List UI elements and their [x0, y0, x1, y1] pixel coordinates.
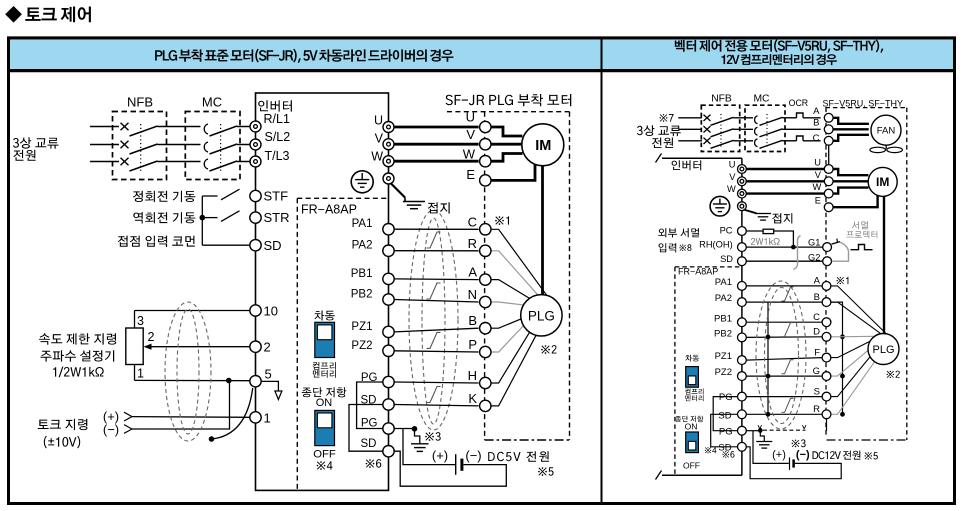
svg-text:SD: SD — [718, 443, 731, 454]
svg-text:G1: G1 — [808, 237, 820, 247]
svg-text:STR: STR — [264, 210, 290, 225]
svg-text:FR−A8AP: FR−A8AP — [678, 267, 718, 277]
svg-text:(−): (−) — [796, 449, 810, 461]
svg-text:N: N — [468, 287, 477, 302]
svg-text:P: P — [468, 337, 477, 352]
svg-text:U: U — [814, 158, 821, 168]
svg-text:PLG: PLG — [528, 308, 555, 323]
svg-text:U: U — [374, 114, 383, 128]
svg-text:B: B — [814, 292, 820, 303]
svg-text:U: U — [466, 110, 475, 125]
svg-text:3: 3 — [137, 314, 144, 328]
svg-text:R: R — [468, 236, 477, 251]
svg-text:E: E — [466, 167, 475, 182]
svg-text:PA1: PA1 — [352, 218, 373, 230]
svg-text:SD: SD — [361, 438, 377, 450]
svg-text:U: U — [729, 160, 736, 170]
svg-text:ON: ON — [685, 422, 698, 432]
svg-text:W: W — [727, 184, 736, 194]
svg-text:FR−A8AP: FR−A8AP — [301, 203, 357, 217]
svg-text:PA1: PA1 — [715, 277, 732, 288]
svg-text:A: A — [468, 265, 477, 280]
svg-text:SD: SD — [264, 238, 282, 253]
svg-text:C: C — [468, 214, 477, 229]
svg-text:PZ2: PZ2 — [715, 367, 732, 378]
svg-text:MC: MC — [753, 93, 770, 104]
svg-text:PG: PG — [719, 392, 733, 403]
svg-text:IM: IM — [535, 138, 551, 154]
svg-text:PB2: PB2 — [351, 289, 373, 301]
svg-text:PG: PG — [361, 417, 378, 429]
svg-text:W: W — [463, 147, 476, 162]
svg-text:PA2: PA2 — [715, 293, 732, 304]
svg-text:RH(OH): RH(OH) — [699, 239, 733, 249]
svg-text:T/L3: T/L3 — [265, 149, 290, 163]
svg-text:V: V — [729, 172, 736, 182]
svg-text:2: 2 — [148, 330, 155, 344]
svg-text:PB1: PB1 — [351, 268, 373, 280]
svg-text:C: C — [813, 312, 820, 323]
svg-text:G: G — [813, 366, 820, 377]
svg-text:OFF: OFF — [313, 449, 336, 461]
svg-text:NFB: NFB — [711, 93, 732, 104]
svg-text:C: C — [813, 133, 820, 144]
svg-text:S: S — [814, 386, 820, 397]
svg-text:2: 2 — [264, 340, 271, 355]
svg-text:V: V — [375, 131, 384, 145]
svg-text:PB2: PB2 — [714, 329, 732, 340]
svg-text:PA2: PA2 — [352, 240, 373, 252]
svg-text:F: F — [814, 347, 820, 358]
svg-text:S/L2: S/L2 — [265, 130, 291, 144]
svg-text:PB1: PB1 — [714, 313, 732, 324]
svg-text:PG: PG — [361, 372, 378, 384]
svg-text:PC: PC — [720, 226, 733, 236]
svg-text:R/L1: R/L1 — [264, 112, 290, 126]
svg-text:PLG: PLG — [872, 344, 894, 356]
svg-text:(−): (−) — [465, 448, 481, 463]
svg-text:5: 5 — [265, 367, 272, 382]
svg-text:SD: SD — [720, 254, 733, 264]
svg-text:PG: PG — [719, 427, 733, 438]
svg-text:G2: G2 — [808, 253, 820, 263]
svg-text:V: V — [466, 127, 475, 142]
svg-text:E: E — [815, 196, 821, 206]
svg-text:MC: MC — [202, 95, 222, 110]
svg-text:OFF: OFF — [683, 461, 700, 471]
svg-text:1: 1 — [264, 410, 271, 425]
svg-text:A: A — [814, 276, 821, 287]
svg-text:ON: ON — [316, 397, 333, 409]
svg-text:H: H — [468, 368, 477, 383]
svg-text:A: A — [813, 106, 820, 117]
svg-text:OCR: OCR — [789, 98, 809, 108]
svg-text:IM: IM — [876, 175, 889, 189]
svg-text:PZ1: PZ1 — [351, 321, 372, 333]
svg-text:B: B — [468, 313, 477, 328]
svg-text:PZ2: PZ2 — [351, 340, 372, 352]
svg-text:NFB: NFB — [127, 95, 153, 110]
svg-text:W: W — [813, 182, 822, 192]
svg-text:FAN: FAN — [877, 126, 896, 137]
svg-text:(−): (−) — [103, 422, 119, 437]
svg-text:B: B — [813, 118, 819, 129]
svg-text:(+): (+) — [432, 448, 448, 463]
svg-text:PZ1: PZ1 — [715, 351, 732, 362]
svg-text:W: W — [371, 149, 383, 163]
svg-text:D: D — [813, 327, 820, 338]
svg-text:SD: SD — [361, 395, 377, 407]
svg-text:1: 1 — [137, 367, 144, 381]
svg-text:K: K — [468, 391, 477, 406]
svg-text:STF: STF — [264, 189, 289, 204]
svg-text:(+): (+) — [772, 449, 786, 461]
svg-text:R: R — [813, 404, 820, 415]
svg-text:V: V — [815, 170, 822, 180]
svg-text:SD: SD — [718, 410, 731, 421]
svg-text:10: 10 — [264, 303, 278, 318]
